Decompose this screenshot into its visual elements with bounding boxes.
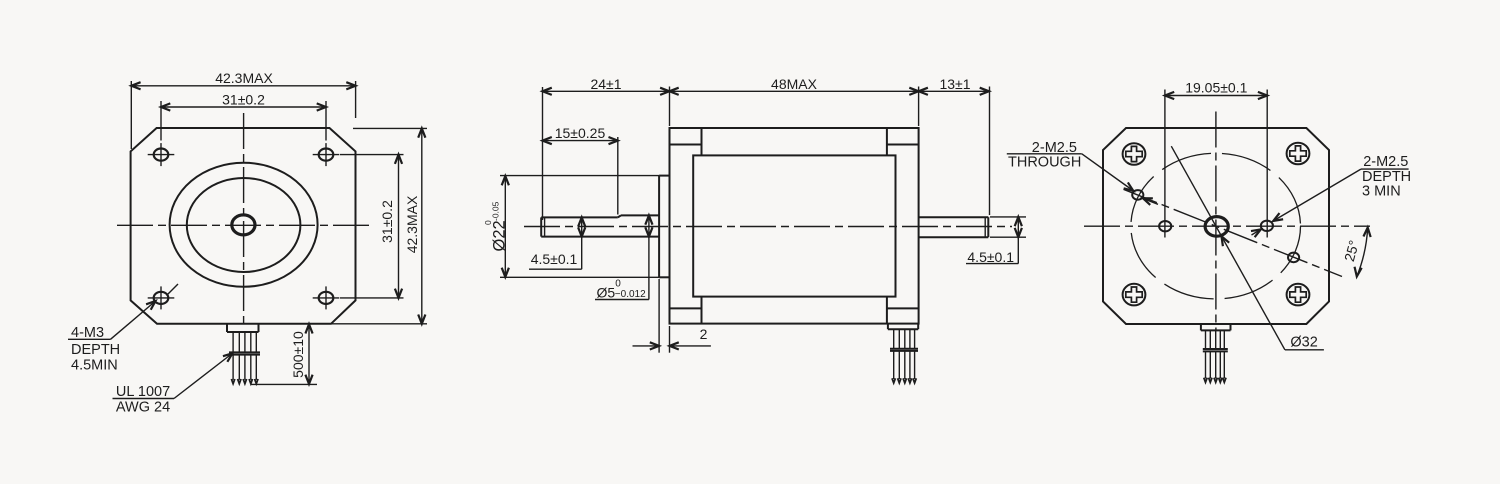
wire bundle middle view bbox=[888, 324, 918, 383]
svg-text:-0.05: -0.05 bbox=[491, 201, 501, 221]
dimension 4.5+-0.1 rear bbox=[966, 217, 1026, 265]
svg-text:Ø5: Ø5 bbox=[597, 284, 616, 300]
screw top-left bbox=[1123, 143, 1146, 165]
pilot boss (2mm) bbox=[659, 176, 669, 278]
label 2-M2.5 DEPTH 3 MIN bbox=[1251, 154, 1411, 237]
dimension 31+-0.2 right vertical bbox=[340, 155, 404, 298]
dimension 31+-0.2 top bbox=[161, 91, 326, 140]
svg-text:31±0.2: 31±0.2 bbox=[379, 200, 395, 243]
horizontal centerline rear bbox=[1084, 225, 1370, 227]
side view centerline bbox=[524, 226, 1012, 228]
mounting hole top-right bbox=[313, 143, 340, 166]
svg-text:DEPTH: DEPTH bbox=[71, 342, 120, 358]
shaft circle bbox=[232, 215, 255, 235]
wire bundle left view bbox=[227, 324, 260, 384]
horizontal centerline bbox=[117, 224, 370, 226]
svg-text:Ø32: Ø32 bbox=[1290, 335, 1317, 351]
vertical centerline bbox=[243, 113, 245, 324]
end cap corner notch top-right bbox=[887, 128, 919, 155]
hole left (M2.5 depth) bbox=[1159, 221, 1171, 231]
svg-text:13±1: 13±1 bbox=[939, 76, 970, 92]
dimension 19.05+-0.1 bbox=[1165, 80, 1267, 238]
svg-text:2: 2 bbox=[700, 326, 708, 342]
label 2-M2.5 THROUGH bbox=[1007, 140, 1158, 205]
svg-text:4.5±0.1: 4.5±0.1 bbox=[531, 251, 578, 267]
wire bundle rear view bbox=[1201, 324, 1231, 382]
screw bottom-right bbox=[1287, 284, 1310, 306]
svg-text:UL 1007: UL 1007 bbox=[116, 384, 170, 400]
front shaft bbox=[541, 215, 659, 236]
dimension 2 (boss thickness) bbox=[633, 279, 711, 353]
dimension 42.3MAX top bbox=[131, 70, 355, 149]
svg-text:31±0.2: 31±0.2 bbox=[222, 91, 265, 107]
mounting hole top-left bbox=[148, 143, 175, 166]
svg-text:42.3MAX: 42.3MAX bbox=[404, 195, 420, 253]
svg-text:−0.012: −0.012 bbox=[615, 289, 646, 300]
svg-text:42.3MAX: 42.3MAX bbox=[215, 70, 273, 86]
svg-text:500±10: 500±10 bbox=[290, 331, 306, 378]
end cap corner notch top-left bbox=[670, 128, 702, 155]
svg-text:AWG 24: AWG 24 bbox=[116, 400, 170, 416]
dimension O5 bbox=[595, 215, 653, 300]
25 degree axis centerline bbox=[1124, 189, 1343, 276]
dimension 15+-0.25 bbox=[543, 125, 618, 214]
screw bottom-left bbox=[1123, 284, 1146, 306]
svg-text:THROUGH: THROUGH bbox=[1008, 155, 1081, 171]
25 degree dimension arc bbox=[1341, 227, 1371, 277]
bolt circle O32 dashed bbox=[1131, 153, 1301, 299]
svg-text:0: 0 bbox=[615, 279, 621, 290]
vertical centerline rear bbox=[1215, 112, 1217, 332]
svg-text:4.5±0.1: 4.5±0.1 bbox=[967, 249, 1014, 265]
end cap corner notch bottom-left bbox=[670, 297, 702, 324]
body outline bbox=[670, 128, 919, 324]
dimension O22 bbox=[483, 176, 659, 278]
motor face plate outline (chamfered square) bbox=[131, 128, 356, 324]
hole right (M2.5 depth) bbox=[1261, 221, 1273, 231]
hole upper-left (M2.5 through) bbox=[1132, 190, 1143, 200]
front boss inner ellipse bbox=[187, 178, 301, 272]
lamination stack rectangle bbox=[693, 155, 895, 296]
rear shaft circle bbox=[1205, 217, 1228, 237]
tick through bottom-left hole bbox=[167, 284, 179, 296]
screw top-right bbox=[1287, 143, 1310, 165]
label O32 leader bbox=[1171, 146, 1324, 350]
mounting hole bottom-left bbox=[148, 286, 175, 309]
svg-text:24±1: 24±1 bbox=[590, 76, 621, 92]
dimension 4.5+-0.1 front bbox=[529, 217, 585, 269]
svg-text:48MAX: 48MAX bbox=[771, 76, 818, 92]
label 4-M3 DEPTH 4.5MIN bbox=[68, 298, 158, 373]
svg-text:2-M2.5: 2-M2.5 bbox=[1363, 154, 1408, 170]
dimension 42.3MAX right vertical bbox=[259, 128, 427, 323]
rear plate outline (chamfered square) bbox=[1103, 128, 1329, 324]
mounting hole bottom-right bbox=[313, 286, 340, 309]
end cap corner notch bottom-right bbox=[887, 297, 919, 324]
hole lower-right (M2.5 through) bbox=[1288, 253, 1299, 263]
dimension line 24 / 48 / 13 bbox=[543, 87, 990, 221]
dimension 500+-10 bbox=[251, 324, 317, 384]
svg-text:19.05±0.1: 19.05±0.1 bbox=[1185, 80, 1247, 96]
front boss outer ellipse bbox=[170, 163, 318, 287]
svg-text:3 MIN: 3 MIN bbox=[1362, 184, 1401, 200]
svg-text:15±0.25: 15±0.25 bbox=[555, 125, 606, 141]
rear shaft bbox=[919, 217, 989, 237]
svg-text:4.5MIN: 4.5MIN bbox=[71, 358, 118, 374]
label UL 1007 AWG 24 bbox=[113, 350, 235, 415]
svg-text:Ø22: Ø22 bbox=[491, 220, 509, 251]
